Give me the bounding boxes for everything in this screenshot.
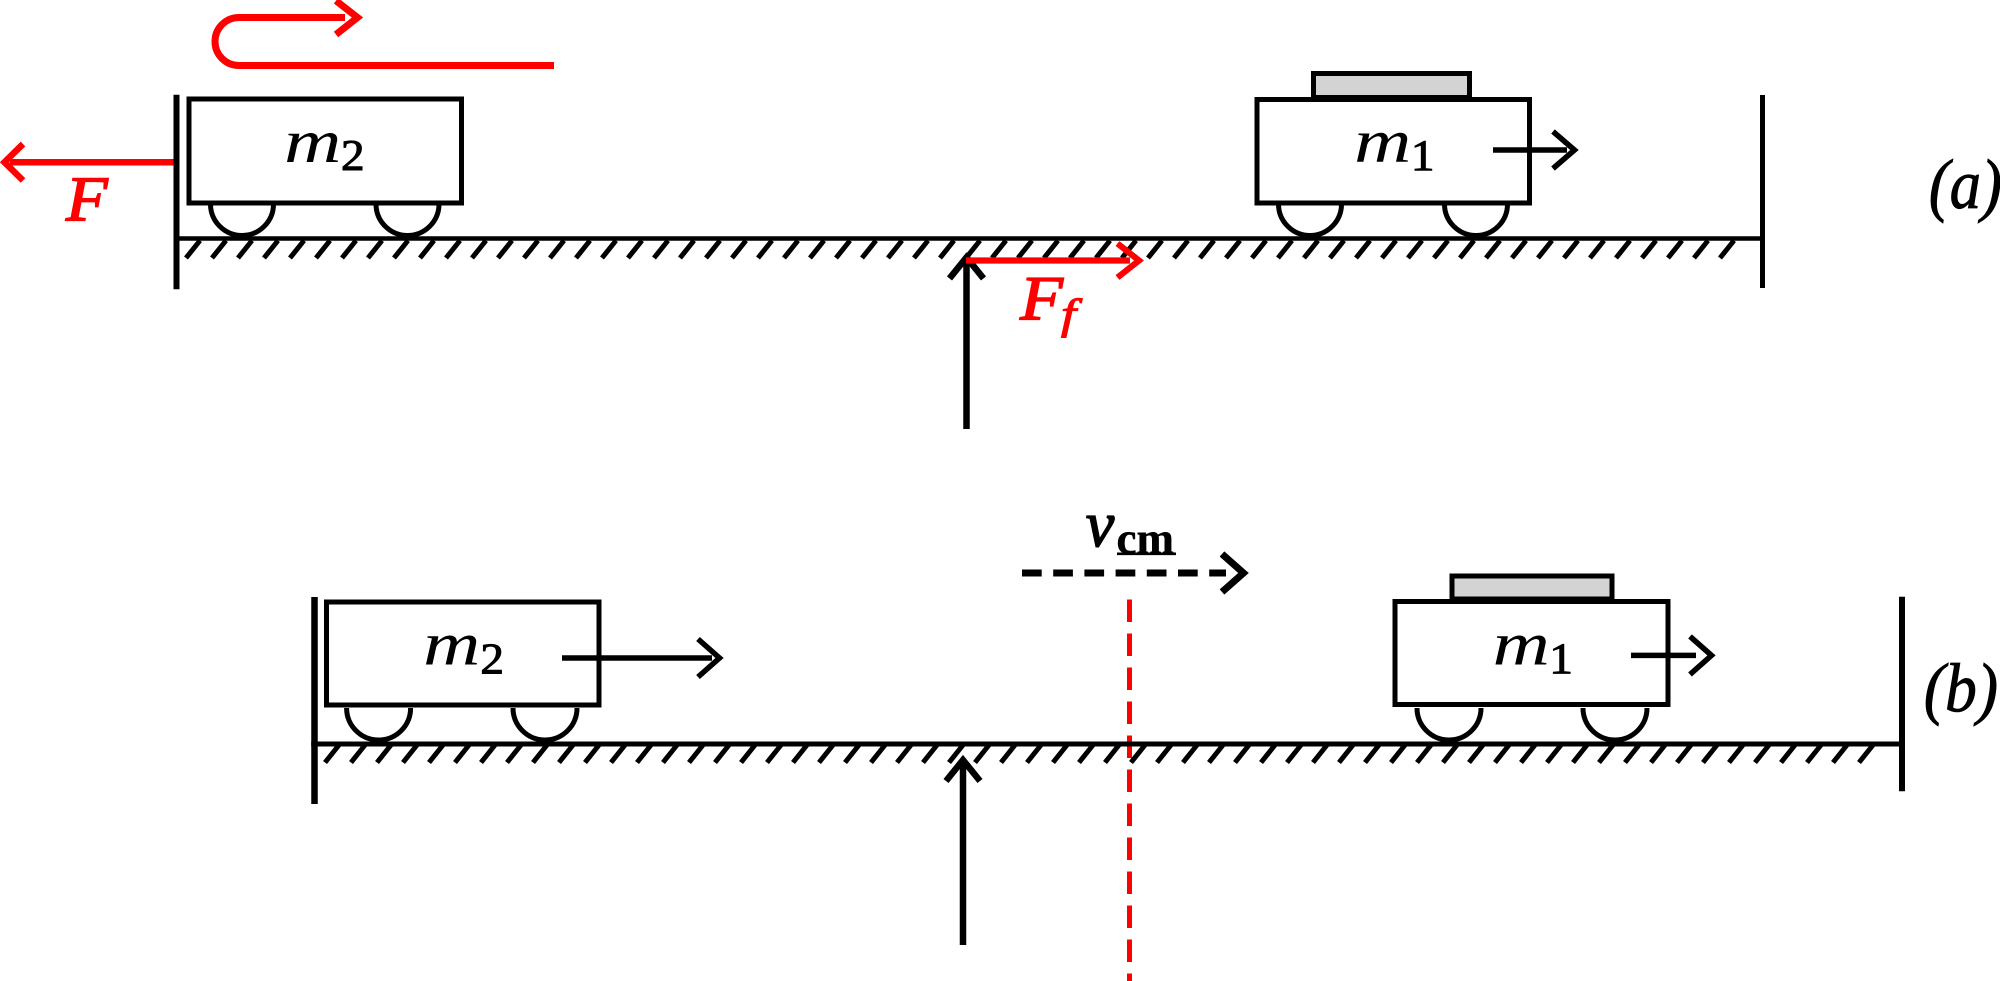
left wall (b) xyxy=(311,597,318,804)
label m1 (a) xyxy=(1357,133,1408,162)
gray block on cart m1 (a) xyxy=(1314,74,1470,98)
label m2 (a) xyxy=(287,133,338,162)
underline under cm (b) xyxy=(1117,552,1176,555)
wheels of cart m2 (b) xyxy=(347,708,577,740)
left wall (a) xyxy=(174,95,180,290)
right wall (a) xyxy=(1760,95,1765,288)
velocity arrow of m1 (b) xyxy=(1631,636,1712,674)
label F (red) (a) xyxy=(66,179,109,221)
label (b) xyxy=(1926,663,1996,726)
force arrow F (red, pointing left from wall) (a) xyxy=(5,144,174,181)
dashed arrow v_cm (b) xyxy=(1022,554,1244,592)
ground line (a) xyxy=(174,236,1766,241)
label (a) xyxy=(1931,159,2000,223)
friction force arrow Ff (red) (a) xyxy=(966,244,1139,278)
red dashed vertical line (center of mass) (b) xyxy=(1127,600,1132,981)
right wall (b) xyxy=(1899,597,1905,792)
cart m1 body (b) xyxy=(1395,602,1668,705)
label m1 (b) xyxy=(1495,635,1546,664)
normal force up-arrow (a) xyxy=(950,257,984,429)
ground hatching (b) xyxy=(325,745,1873,763)
normal force up-arrow (b) xyxy=(946,760,980,945)
velocity arrow of m2 (b) xyxy=(562,639,720,677)
cart m2 body (b) xyxy=(327,602,600,705)
cart m2 body (a) xyxy=(189,99,462,203)
wheels of cart m1 (a) xyxy=(1279,204,1508,236)
velocity arrow of m1 (a) xyxy=(1493,132,1575,169)
cart m1 body (a) xyxy=(1257,100,1530,204)
label Ff (red) (a) xyxy=(1020,278,1064,319)
gray block on cart m1 (b) xyxy=(1452,576,1612,599)
ground hatching (a) xyxy=(186,241,1734,259)
label m2 (b) xyxy=(426,635,477,664)
wheels of cart m2 (a) xyxy=(211,204,440,236)
ground line (b) xyxy=(311,742,1905,747)
red curved arrow (force applied then reversed) above cart m2 (a) xyxy=(215,1,554,66)
wheels of cart m1 (b) xyxy=(1417,708,1647,740)
label v_cm (b) xyxy=(1087,516,1115,547)
